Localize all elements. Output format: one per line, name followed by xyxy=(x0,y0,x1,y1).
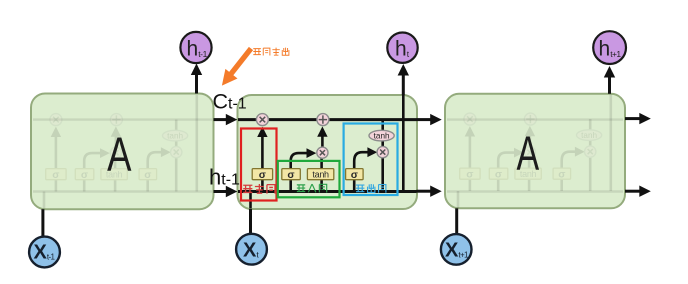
wire: ht-1 output arrow up from left cell xyxy=(191,64,202,94)
right cell body xyxy=(445,94,625,209)
right cell faded internals xyxy=(458,95,611,209)
left cell faded C line xyxy=(33,118,212,120)
left cell faded internals xyxy=(44,95,197,209)
svg-text:ht-1: ht-1 xyxy=(209,165,240,190)
wire: h line through middle cell xyxy=(238,190,417,193)
wire: Xt-1 input line xyxy=(41,209,44,237)
left cell faded h line xyxy=(33,190,212,192)
middle cell opaque internals xyxy=(251,95,404,209)
left cell body xyxy=(31,94,214,210)
wire: C line through middle cell xyxy=(238,118,417,121)
annotation: cell state label (orange CJK) xyxy=(253,48,289,56)
wire: ht-1 arrow into middle cell xyxy=(214,186,238,197)
annotation: output gate label (blue CJK) xyxy=(356,184,386,193)
wire: C arrow out of right cell xyxy=(625,113,651,124)
svg-text:A: A xyxy=(516,125,539,179)
annotation: output gate blue box xyxy=(344,124,398,196)
wire: h arrow out of right cell xyxy=(625,186,651,197)
node Xt+1 input circle xyxy=(441,234,472,265)
wire: Ct-1 arrow into middle cell xyxy=(214,114,238,125)
annotation: orange arrow (cell state pointer) xyxy=(222,49,251,86)
annotation: input gate green box xyxy=(278,161,340,197)
svg-text:Ct-1: Ct-1 xyxy=(213,90,247,114)
right cell faded C line xyxy=(447,118,623,120)
annotation: input gate label (green CJK) xyxy=(297,184,327,192)
node Xt-1 input circle xyxy=(29,237,60,268)
wire: Xt+1 input line xyxy=(455,208,458,234)
wire: C arrow middle to right cell xyxy=(417,114,442,125)
node Xt input circle xyxy=(236,234,267,265)
wire: ht output arrow up from middle cell xyxy=(398,64,409,95)
annotation: forget gate red box xyxy=(241,129,277,201)
node ht-1 output circle xyxy=(180,32,211,63)
wire: h arrow middle to right cell xyxy=(417,186,442,197)
middle cell body xyxy=(238,95,418,209)
wire: Xt input line xyxy=(249,209,252,234)
node ht output circle xyxy=(387,33,417,63)
right cell faded h line xyxy=(447,190,623,192)
annotation: forget gate label (red CJK) xyxy=(243,184,275,194)
node ht+1 output circle xyxy=(593,31,626,64)
wire: ht+1 output arrow up from right cell xyxy=(604,66,615,94)
svg-text:A: A xyxy=(107,128,132,182)
